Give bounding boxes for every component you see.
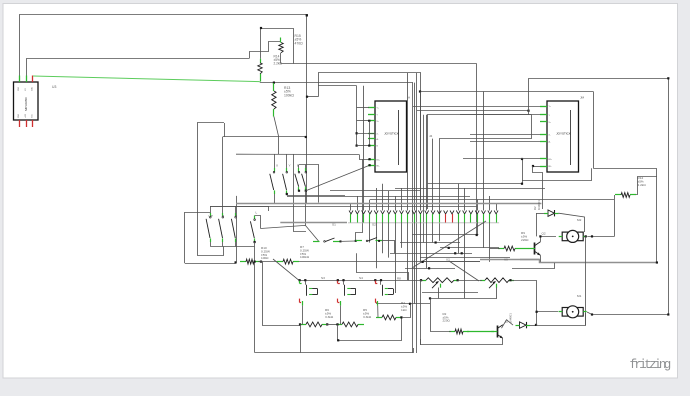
pushbutton S5 bbox=[374, 279, 393, 306]
wire rail x=197 bbox=[198, 123, 225, 256]
wire bus y=137 bbox=[223, 136, 306, 138]
node dot VR2 right bbox=[509, 279, 511, 281]
wire diagonal to joystick A bbox=[306, 165, 370, 191]
wire SA right bbox=[341, 240, 356, 242]
svg-text:U2: U2 bbox=[446, 258, 450, 262]
wire gray bus y=2596 bbox=[480, 260, 656, 263]
resistor R3 220 bbox=[449, 329, 469, 334]
wire js2 feed y159 bbox=[463, 158, 540, 160]
IC U3 MPU6050 bbox=[14, 82, 39, 120]
svg-text:2.2kΩ: 2.2kΩ bbox=[274, 62, 283, 66]
label R2 bbox=[443, 312, 451, 323]
node dot D1 right bbox=[535, 324, 537, 326]
node dot mesh e bbox=[422, 261, 424, 263]
wire B2 bottom down bbox=[305, 191, 307, 226]
svg-text:S4: S4 bbox=[359, 276, 363, 280]
wire M1 bottom loop bbox=[536, 313, 586, 326]
wire y=2686 stub bbox=[512, 263, 555, 269]
node dot R4 right bbox=[400, 316, 402, 318]
label D1 bbox=[505, 313, 513, 323]
wire VR2 to rail bbox=[512, 280, 537, 282]
wire bus y=293 bbox=[422, 292, 478, 294]
node dot x=2356 bbox=[235, 261, 237, 263]
wire left rail top bbox=[185, 212, 210, 214]
wire js2 feed y141 bbox=[470, 141, 540, 143]
wire js2 feed y166 bbox=[533, 166, 540, 168]
wire L hook diagonal bbox=[261, 225, 319, 241]
wire VR1 tap down bbox=[438, 288, 440, 299]
wire diagonal to switch bus bbox=[273, 259, 299, 280]
switch DOWN bbox=[231, 206, 236, 242]
label M2 bbox=[577, 218, 582, 222]
svg-text:JOYSTICK: JOYSTICK bbox=[384, 132, 399, 136]
joystick A pin labels bbox=[377, 108, 381, 168]
wire x=522 drop bbox=[522, 159, 524, 184]
switch X bbox=[270, 168, 275, 194]
wire y=86 to joystick bbox=[318, 85, 356, 87]
node dot js1 p3 bbox=[368, 120, 370, 122]
wire green from U3 to node bbox=[33, 76, 260, 82]
label D2 bbox=[533, 200, 541, 210]
resistor R14 2.2k bbox=[258, 59, 262, 82]
switch SB horizontal bbox=[356, 238, 382, 242]
wire D1 right bbox=[530, 325, 536, 327]
joystick JM pin labels bbox=[549, 106, 553, 168]
node dot js1 p6 bbox=[356, 145, 358, 147]
wire bus y=2619 bbox=[422, 261, 480, 263]
wire bus y=1837 bbox=[428, 183, 522, 185]
U3 bottom pin 6 red bbox=[32, 120, 34, 127]
wire x=224 down bbox=[224, 123, 226, 137]
svg-text:B5-: B5- bbox=[549, 166, 552, 168]
wire Q2 collector node bbox=[541, 237, 557, 242]
svg-text:100kΩ: 100kΩ bbox=[300, 255, 310, 259]
svg-text:1kΩ: 1kΩ bbox=[401, 308, 407, 312]
svg-text:M2: M2 bbox=[577, 218, 582, 222]
wire x=2933 down bbox=[294, 154, 307, 231]
wire D2 right to M2 bbox=[559, 213, 585, 232]
node dot L drop row bbox=[254, 261, 256, 263]
wire bus y=2425 bbox=[400, 242, 460, 244]
wire x=4236 vertical bbox=[423, 115, 425, 243]
node dot y91 bbox=[419, 90, 421, 92]
resistor R4 1k bbox=[376, 315, 402, 320]
resistor R15 470 bbox=[279, 38, 283, 64]
label M1 bbox=[577, 294, 582, 298]
wire bus y=188 bbox=[395, 188, 545, 190]
wire js1 feed vertical bbox=[356, 86, 358, 146]
switch SA horizontal bbox=[313, 238, 342, 242]
wire x=5366 rail bbox=[536, 280, 538, 325]
label R7 bbox=[300, 245, 310, 259]
wire x=4207 down bbox=[420, 280, 422, 345]
svg-text:U3: U3 bbox=[52, 85, 56, 89]
svg-text:S2: S2 bbox=[372, 223, 376, 227]
wire VR link bbox=[458, 280, 482, 282]
node dot Y bottom bbox=[286, 193, 288, 195]
resistor R12 22k bbox=[615, 193, 636, 198]
joystick A box bbox=[375, 101, 407, 172]
svg-text:2.2kΩ: 2.2kΩ bbox=[638, 183, 647, 187]
wire x5285 down bbox=[528, 78, 530, 115]
wire gray y=2225 bbox=[280, 222, 347, 224]
node dot js2 b5 bbox=[532, 165, 534, 167]
wire M1 left bbox=[537, 311, 559, 313]
svg-text:M1: M1 bbox=[577, 294, 582, 298]
wire js1 feed y1075 bbox=[357, 107, 369, 109]
wire L bottom to resistor row bbox=[254, 242, 256, 353]
wire R9 to Q2 base green bbox=[521, 248, 529, 250]
resistor R13 100k bbox=[272, 83, 276, 117]
wire bus y=196 bbox=[287, 196, 470, 198]
wire js1 link p3-p6 bbox=[369, 121, 371, 146]
resistor R6 33k bbox=[300, 322, 328, 327]
wire R15 box top bbox=[261, 29, 294, 64]
wire B tops bbox=[299, 165, 306, 168]
svg-text:470Ω: 470Ω bbox=[295, 41, 304, 45]
pushbutton S4 bbox=[337, 279, 356, 306]
wire x=413 tall bbox=[412, 83, 414, 354]
node dot mesh f bbox=[429, 297, 431, 299]
svg-text:X: X bbox=[276, 164, 278, 168]
wire diag 2 bbox=[449, 261, 479, 281]
wire js1 b1 feed bbox=[360, 155, 370, 160]
wire switch bus y=2802 bbox=[299, 280, 423, 282]
svg-text:100Ω: 100Ω bbox=[261, 256, 269, 260]
label S1 bbox=[332, 223, 336, 227]
label S2 bbox=[372, 223, 376, 227]
wire bus y=235 bbox=[412, 234, 478, 236]
wire bus y=2576 bbox=[420, 257, 510, 259]
label JM joystick2 bbox=[580, 96, 585, 100]
label U3 bbox=[52, 85, 56, 89]
wire Q1 collector peak bbox=[502, 320, 514, 328]
U3 bottom pin 4 red bbox=[19, 120, 21, 127]
wire y=91 bus bbox=[420, 91, 593, 93]
wire bus y=154 bbox=[236, 153, 359, 155]
pushbutton S3 bbox=[299, 279, 318, 306]
svg-text:JM: JM bbox=[580, 96, 585, 100]
wire long y=636 to x477 bbox=[281, 63, 477, 65]
wire bank bottom bus bbox=[210, 246, 254, 248]
label Y bbox=[289, 164, 291, 168]
diode D2 bbox=[544, 210, 559, 216]
joystick JM box bbox=[547, 101, 579, 172]
label L bbox=[256, 211, 258, 215]
wire D2 left bbox=[536, 213, 544, 215]
label R15 bbox=[295, 34, 304, 45]
wire bus y=191 bbox=[330, 190, 420, 192]
svg-text:GND: GND bbox=[18, 86, 20, 91]
svg-text:JOYSTICK: JOYSTICK bbox=[556, 132, 571, 136]
node dot x477 end bbox=[476, 234, 478, 236]
switch Y bbox=[283, 168, 288, 194]
wire jog steps bbox=[250, 42, 282, 59]
svg-text:U5: U5 bbox=[504, 258, 508, 262]
node dot js1 b1 bbox=[369, 158, 371, 160]
fritzing watermark bbox=[630, 358, 671, 372]
node dot top bus corner bbox=[306, 14, 308, 16]
wire bottom bus y=353 bbox=[255, 348, 414, 353]
wire left rail vertical bbox=[184, 212, 186, 263]
wire R4 right up bbox=[402, 304, 411, 318]
U3 top pin 1 green bbox=[19, 76, 21, 83]
wire js2 feed y134 bbox=[470, 134, 540, 136]
label J4 bbox=[429, 134, 433, 138]
label U2 bbox=[446, 258, 450, 262]
label D bbox=[235, 214, 238, 218]
wire y=78 right rail bbox=[529, 79, 669, 315]
node dot y78 right bbox=[667, 77, 669, 79]
node dot R6 right bbox=[326, 323, 328, 325]
wire x477 down bbox=[476, 64, 478, 235]
wire M1 right bbox=[587, 312, 668, 315]
wire R10-R7 bbox=[258, 261, 279, 263]
wire D2 anode drop bbox=[536, 213, 538, 236]
node dot M2 link bbox=[591, 235, 593, 237]
svg-text:MPU6050: MPU6050 bbox=[24, 97, 28, 111]
wire y=106 feed bbox=[413, 106, 540, 108]
wire y=73 bus bbox=[319, 73, 421, 207]
wire bus y=2984 bbox=[430, 298, 497, 300]
label X bbox=[276, 164, 278, 168]
label R12 bbox=[638, 176, 647, 187]
transistor Q2 bbox=[529, 242, 541, 256]
wire R13 bottom lead bbox=[274, 117, 279, 155]
label R6 bbox=[325, 308, 334, 319]
node dot y1837 right bbox=[521, 183, 523, 185]
svg-text:B5-: B5- bbox=[377, 165, 380, 167]
joystick A inner line bbox=[398, 110, 400, 165]
node dot VR1 right bbox=[457, 279, 459, 281]
label R9 bbox=[521, 231, 529, 242]
wire SB right bbox=[382, 240, 395, 242]
wire R3 left bbox=[431, 298, 452, 331]
wire gray stub left of M1 bbox=[520, 259, 539, 261]
wire bus y=3038 bbox=[376, 303, 430, 305]
wire x=417 tall bbox=[416, 73, 418, 353]
U3 top pin 2 green bbox=[26, 76, 28, 83]
node dot x=522 feed bbox=[521, 158, 523, 160]
node dot mesh d bbox=[428, 267, 430, 269]
wire y bottom bus bbox=[287, 195, 345, 197]
wire bus y=2036 gray bbox=[236, 203, 541, 205]
wire L top hook bbox=[255, 216, 261, 229]
wire bank right drop bbox=[268, 206, 270, 211]
switch B1 bbox=[295, 168, 300, 191]
diode D1 bbox=[516, 322, 531, 328]
wire x=593 down bbox=[593, 92, 595, 169]
label R13 bbox=[284, 86, 294, 97]
svg-text:+VIN: +VIN bbox=[25, 113, 27, 118]
node dot L bottom bbox=[254, 241, 256, 243]
switch LEFT bbox=[250, 216, 255, 243]
label R14 bbox=[274, 55, 283, 66]
wire inner bus y=3403 bbox=[338, 317, 402, 340]
node dot R5 left bbox=[336, 323, 338, 325]
label R5 bbox=[363, 308, 372, 319]
wire bank bottom drops bbox=[211, 242, 236, 247]
label S4 bbox=[359, 276, 363, 280]
label S3 bbox=[321, 276, 325, 280]
wire js1 feed y1333 bbox=[357, 133, 375, 135]
node dot R6 left bbox=[299, 323, 301, 325]
wire R6 left drop bbox=[300, 324, 302, 352]
node dot B1 bottom bbox=[298, 190, 300, 192]
label R10 bbox=[261, 246, 270, 260]
node dot y137 bbox=[305, 136, 307, 138]
wire diag 1 bbox=[412, 221, 486, 268]
U3 top pin 3 red bbox=[32, 76, 34, 83]
resistor R5 33k bbox=[336, 322, 364, 327]
svg-text:L: L bbox=[256, 211, 258, 215]
wire js2 b5 drop bbox=[533, 166, 543, 209]
wire bus y=2479 bbox=[440, 247, 499, 249]
svg-text:GND: GND bbox=[18, 113, 20, 118]
label R8 bbox=[397, 277, 401, 281]
wire x=2628 down bbox=[263, 262, 301, 326]
label Q2 bbox=[542, 232, 546, 236]
svg-text:Y: Y bbox=[289, 164, 291, 168]
label UP bbox=[209, 214, 213, 218]
switch RIGHT bbox=[219, 206, 224, 242]
node dot y110 bbox=[527, 110, 529, 112]
node dot M1 right bbox=[591, 313, 593, 315]
wire Q2 emitter down bbox=[540, 255, 542, 262]
wire M2 rail down bbox=[585, 236, 587, 325]
node dot js1 p6b bbox=[368, 145, 370, 147]
svg-text:UP: UP bbox=[209, 214, 213, 218]
node dot M1 far bbox=[667, 313, 669, 315]
node dot inner bus bbox=[337, 339, 339, 341]
header S1 24-pin strip bbox=[348, 211, 499, 223]
motor M2 bbox=[559, 230, 587, 242]
wire X top bbox=[274, 154, 276, 168]
wire Q1 emitter down bbox=[421, 338, 503, 344]
label R4 bbox=[401, 301, 407, 312]
wire VR2 tap down bbox=[496, 288, 498, 299]
svg-text:J4: J4 bbox=[429, 134, 433, 138]
wire M2 to x614 bbox=[587, 236, 614, 238]
wire B box bbox=[299, 165, 319, 203]
wire bank top bus bbox=[210, 206, 268, 208]
wire y=114 bus bbox=[428, 115, 532, 210]
resistor R7 100k bbox=[277, 259, 299, 264]
wire R7 right bbox=[299, 261, 480, 263]
node dot B2 bottom bbox=[305, 190, 307, 192]
svg-text:R8: R8 bbox=[397, 277, 401, 281]
transistor Q1 bbox=[491, 325, 503, 339]
svg-text:1N4001: 1N4001 bbox=[537, 200, 541, 210]
joystick JM pins bbox=[540, 107, 547, 167]
wire js1 down to SB bbox=[356, 159, 363, 241]
resistor R9 220 bbox=[498, 246, 521, 251]
svg-text:fritzing: fritzing bbox=[630, 358, 671, 372]
node dot mesh b bbox=[448, 247, 450, 249]
trimmer VR2 bbox=[480, 278, 514, 288]
wire R3 to Q1 base green bbox=[467, 331, 494, 333]
label B1 bbox=[297, 164, 299, 168]
wire x=2226 down to bank bbox=[222, 137, 224, 206]
wire node y=82 bbox=[260, 82, 413, 84]
joystick A pins bbox=[368, 108, 375, 166]
wire js1 feed y1456 bbox=[357, 145, 370, 147]
wire bus y=2533 bbox=[390, 253, 472, 255]
svg-text:3.3kΩ: 3.3kΩ bbox=[363, 315, 372, 319]
wire R6-R5 link bbox=[326, 324, 338, 326]
label A joystick1 bbox=[408, 96, 411, 100]
wire x357 drop bbox=[357, 253, 409, 280]
node dot x307 y97 bbox=[306, 96, 308, 98]
node dot gray right bbox=[656, 261, 658, 263]
node dot SB left bbox=[355, 240, 357, 242]
wire y=1682 to right rail bbox=[593, 169, 656, 263]
motor M1 bbox=[559, 306, 587, 318]
wire Y top bbox=[286, 154, 288, 168]
wire X bottom down bbox=[274, 194, 276, 204]
U3 bottom pin 5 red bbox=[26, 120, 28, 127]
node dot Q2 collector bbox=[539, 235, 541, 237]
wire js2 feed y114 bbox=[460, 114, 540, 116]
node dot R13 top bbox=[273, 82, 275, 84]
node dot mesh h bbox=[461, 252, 463, 254]
wire bus y=1996 bbox=[370, 199, 614, 201]
wire y=110 bus bbox=[417, 110, 529, 112]
node dot R10 right bbox=[260, 261, 262, 263]
wire R12 right up bbox=[636, 177, 657, 195]
wire y=1808 jog bbox=[522, 168, 592, 180]
wire x=2366 down bbox=[236, 196, 238, 263]
switch B2 bbox=[302, 168, 307, 191]
wire R12 left down bbox=[614, 195, 616, 236]
wires header drops below bbox=[370, 223, 490, 304]
svg-text:220Ω: 220Ω bbox=[443, 319, 451, 323]
node dot mesh g bbox=[409, 303, 411, 305]
node dot js1 p4 bbox=[356, 132, 358, 134]
node dot box corner bbox=[260, 27, 262, 29]
svg-text:S3: S3 bbox=[321, 276, 325, 280]
wire js1 feed y1208 bbox=[357, 120, 370, 122]
wire R9 left bbox=[490, 248, 500, 250]
switch UP bbox=[206, 206, 211, 242]
wire y=138 bus bbox=[440, 115, 532, 241]
wire S5 bottom slant bbox=[377, 306, 379, 318]
wire S3 bottom bbox=[302, 306, 304, 325]
node dot js1 b5 bbox=[369, 164, 371, 166]
label U5 bbox=[504, 258, 508, 262]
node dot VR1 left bbox=[420, 279, 422, 281]
node dot mesh a bbox=[435, 241, 437, 243]
resistor R10 100 bbox=[240, 259, 260, 264]
svg-text:Q2: Q2 bbox=[542, 232, 546, 236]
wire SB drop bbox=[394, 241, 396, 253]
wire bus y=2069 bbox=[210, 206, 477, 208]
node dot M2 right bbox=[585, 235, 587, 237]
label R bbox=[222, 214, 225, 218]
svg-text:3.3kΩ: 3.3kΩ bbox=[325, 315, 334, 319]
trimmer VR1 bbox=[421, 278, 459, 288]
svg-text:220Ω: 220Ω bbox=[521, 238, 529, 242]
wire top bus from U3 pin1 bbox=[20, 15, 307, 204]
node dot M1 left bbox=[536, 311, 538, 313]
wire bus y=2683 bbox=[405, 268, 455, 270]
wire y=97 stub bbox=[307, 96, 318, 98]
wire bus from U3 pin2 bbox=[27, 59, 250, 76]
joystick JM inner line bbox=[570, 110, 572, 165]
svg-text:100kΩ: 100kΩ bbox=[284, 93, 294, 97]
wires header feeds from buses bbox=[351, 73, 497, 211]
node dot mesh c bbox=[454, 252, 456, 254]
